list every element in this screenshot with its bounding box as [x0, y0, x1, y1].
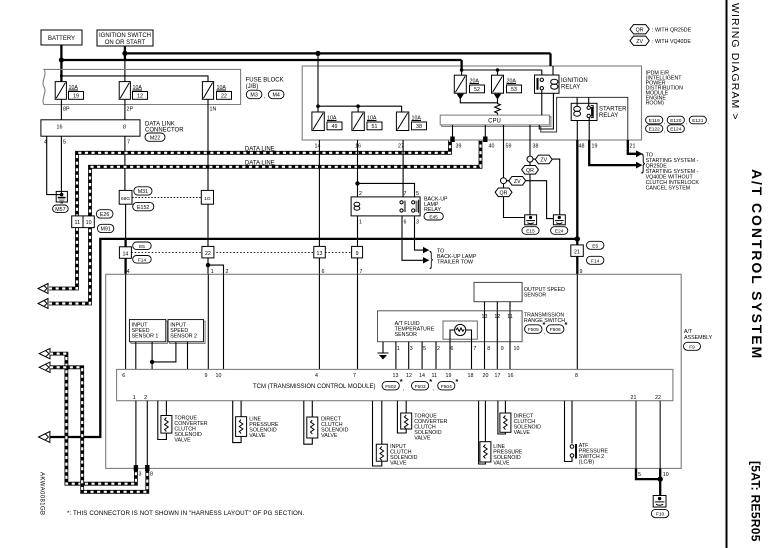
svg-text:7: 7: [404, 191, 407, 197]
svg-text:ROOM): ROOM): [646, 101, 664, 107]
fuse 53 20A: [492, 75, 522, 93]
starter relay label: [599, 107, 627, 120]
BATTERY box: [41, 30, 82, 45]
arrowhead 1: [636, 150, 643, 157]
pin8 square: [145, 465, 149, 471]
connector F505 oval: [525, 320, 546, 336]
output sensor pass-through wires to TCM: [485, 311, 511, 370]
svg-text:E26: E26: [100, 212, 109, 218]
wire pin59 down with QR/ZV split: [503, 140, 505, 178]
svg-text:RELAY: RELAY: [599, 113, 618, 119]
svg-text:9: 9: [205, 373, 208, 379]
svg-text:CPU: CPU: [488, 119, 501, 125]
back-up lamp relay label: [424, 197, 448, 214]
svg-text:1: 1: [211, 269, 214, 275]
svg-text:20: 20: [483, 373, 489, 379]
svg-text:: WITH VQ40DE: : WITH VQ40DE: [652, 39, 691, 45]
connector M91 oval: [97, 224, 113, 232]
svg-text:53: 53: [511, 87, 517, 93]
IPDM E/R box: [302, 66, 641, 140]
svg-text:,: ,: [664, 128, 665, 134]
svg-text:*: THIS CONNECTOR IS NOT SHOWN: *: THIS CONNECTOR IS NOT SHOWN IN "HARNE…: [67, 510, 305, 517]
IPDM E/R label block: [646, 71, 684, 107]
svg-text:E152: E152: [137, 205, 149, 211]
svg-text:SENSOR: SENSOR: [524, 293, 547, 299]
svg-text:3: 3: [410, 346, 413, 352]
svg-text:*: *: [455, 377, 458, 386]
connector E5 oval right: [587, 241, 604, 249]
connector E24 oval: [551, 227, 568, 235]
svg-text:SENSOR 1: SENSOR 1: [132, 334, 159, 340]
wire starter contact to pin19: [588, 118, 590, 140]
harness connector row dotted line: [131, 251, 351, 253]
solenoid 3 direct clutch loop: [304, 401, 313, 445]
IPDM pin labels: [315, 144, 636, 150]
svg-text:*: *: [565, 320, 568, 329]
DATA LINK CONNECTOR box: [41, 120, 140, 136]
svg-text:16: 16: [57, 124, 63, 130]
svg-text:TRAILER TOW: TRAILER TOW: [437, 260, 473, 266]
wire A/T pin2 to TCM pin10: [223, 274, 225, 369]
node fuse53 feed: [496, 68, 500, 72]
wire sensor2 right pin to TCM: [187, 342, 189, 370]
stub bus to fuse 51: [357, 106, 359, 112]
solenoid 6 resistor box: [480, 442, 491, 462]
node split below connector 22: [206, 263, 210, 267]
svg-text:6: 6: [451, 346, 454, 352]
solenoid 1 resistor box: [161, 416, 172, 434]
svg-text:}: }: [430, 249, 433, 270]
arrowhead trailer 2: [423, 257, 429, 263]
stub to fuse 53: [497, 70, 499, 75]
range switch wires to TCM: [396, 342, 436, 370]
wire relay pin3 to trailer tow arrow: [415, 216, 425, 250]
wire junction left to A/T left loop: [49, 239, 577, 437]
svg-text:ZV: ZV: [636, 39, 643, 45]
svg-text:10: 10: [663, 472, 669, 478]
diode arrow below fuse 52: [457, 94, 464, 100]
range switch bottom pin labels: [397, 346, 520, 352]
wire TCM pin2 to A/T pin8: [146, 401, 148, 469]
svg-text:38: 38: [416, 124, 422, 130]
svg-text:E122: E122: [649, 127, 661, 133]
wire starter contact top: [588, 97, 590, 106]
node fuse49 bus: [316, 104, 320, 108]
ZV hexagon pin38: [533, 155, 560, 215]
wire to A/T pin 1: [207, 265, 209, 274]
fuse block label: [246, 78, 284, 91]
svg-text:6: 6: [322, 269, 325, 275]
svg-text:5: 5: [423, 346, 426, 352]
connector box 9: [352, 246, 363, 258]
svg-text:5: 5: [63, 140, 66, 146]
fuse 19 10A: [55, 82, 83, 100]
wire relay pin1 down to connector 9: [357, 216, 359, 246]
solenoid 7 direct clutch loop: [498, 401, 506, 434]
svg-text:SENSOR 2: SENSOR 2: [170, 334, 197, 340]
wire sensor1 right pin to TCM: [151, 342, 153, 370]
svg-text:7: 7: [127, 140, 130, 146]
svg-text:13: 13: [393, 373, 399, 379]
solenoid 2 label: [249, 417, 279, 440]
thermistor: [450, 324, 472, 341]
fuse 38 10A: [396, 112, 426, 131]
wire CPU to pin38: [529, 125, 531, 140]
connector box 21: [571, 245, 584, 257]
ground connector E15: [525, 215, 537, 225]
svg-text:,: ,: [544, 330, 545, 336]
data line 1 (shielded wire): [49, 140, 450, 289]
svg-text:9: 9: [501, 346, 504, 352]
QR hexagon pin59: [495, 184, 525, 218]
wire 1G down through connector 22: [207, 204, 209, 246]
svg-text:10: 10: [86, 220, 92, 226]
wire sensor2 left pin join: [152, 342, 176, 362]
svg-text:QR: QR: [526, 168, 534, 174]
solenoid 5 label: [414, 414, 447, 442]
connector E120 oval: [667, 116, 687, 125]
output speed sensor label: [524, 287, 565, 299]
svg-text:,: ,: [264, 94, 265, 100]
stub to fuse 52: [461, 70, 463, 75]
svg-text:IGNITION SWITCH: IGNITION SWITCH: [99, 33, 151, 39]
wire DLC pin7 down to 68G: [124, 136, 126, 190]
wire TCM pin22 down: [659, 401, 661, 469]
stub bus to fuse 49: [317, 106, 319, 112]
node battery junction: [59, 57, 64, 62]
wire to A/T pin 2: [208, 265, 224, 274]
svg-text:39: 39: [456, 144, 462, 150]
svg-text:19: 19: [446, 373, 452, 379]
svg-text:21: 21: [574, 249, 580, 255]
connector E121 oval: [689, 116, 709, 125]
fuse 12 10A: [119, 82, 147, 100]
A/T fluid temperature sensor label: [395, 321, 435, 338]
svg-text:VALVE: VALVE: [414, 436, 431, 442]
svg-text:68G: 68G: [121, 196, 130, 202]
TCM box: [117, 369, 673, 400]
wire IPDM pin27 down to relay pin7: [402, 140, 404, 197]
svg-text:TCM (TRANSMISSION CONTROL MODU: TCM (TRANSMISSION CONTROL MODULE): [253, 384, 375, 390]
svg-text:2: 2: [226, 269, 229, 275]
connector M4 oval: [268, 90, 284, 99]
svg-text:F9: F9: [689, 344, 695, 350]
svg-text:5: 5: [638, 472, 641, 478]
svg-text:2: 2: [359, 191, 362, 197]
svg-text:4: 4: [127, 269, 130, 275]
node relay feed split: [355, 181, 359, 185]
svg-text:M31: M31: [138, 189, 148, 195]
svg-text:1G: 1G: [204, 196, 211, 202]
wire pin19 to starting system arrow: [589, 140, 638, 165]
svg-text:16: 16: [508, 373, 514, 379]
svg-text:22: 22: [221, 94, 227, 100]
svg-text:F14: F14: [138, 257, 147, 263]
sidebar rule: [726, 0, 728, 548]
svg-text:10: 10: [216, 373, 222, 379]
svg-text:(J/B): (J/B): [246, 84, 259, 90]
off-page arrow 1: [38, 284, 48, 294]
svg-text:8: 8: [487, 346, 490, 352]
wire TCM pin21 down: [635, 401, 637, 469]
off-page arrow 4: [39, 362, 50, 372]
svg-text:F503: F503: [415, 384, 426, 390]
svg-text:2P: 2P: [127, 107, 134, 113]
wire battery line down into IPDM: [460, 60, 462, 70]
fuse block (J/B) box: [43, 69, 241, 104]
arrowhead 2: [636, 162, 643, 169]
fuse 49 10A: [312, 112, 342, 131]
svg-text:40: 40: [489, 144, 495, 150]
legend ZV hexagon: [630, 36, 691, 45]
svg-text:18: 18: [468, 373, 474, 379]
pin40 square: [483, 137, 487, 143]
ignition feed wire (horizontal): [125, 52, 551, 54]
output speed sensor box: [474, 282, 522, 301]
svg-text:VALVE: VALVE: [321, 433, 338, 439]
node ignition junction: [122, 51, 127, 56]
svg-text:E120: E120: [670, 118, 682, 124]
resistor to CPU: [495, 99, 501, 115]
connector E26 oval: [96, 210, 113, 218]
svg-text:3: 3: [139, 472, 142, 478]
connector M22 oval: [145, 133, 165, 141]
wire ignition line down to fuse bus: [317, 53, 319, 106]
svg-text:11: 11: [75, 220, 81, 226]
ATF pressure switch contacts: [570, 444, 576, 459]
svg-text:1: 1: [359, 220, 362, 226]
pin3 square: [134, 465, 138, 471]
solenoid 6 line pressure loop (lower): [479, 401, 486, 464]
pin39 square: [450, 137, 454, 143]
wire CPU to pin21 path around starter relay: [541, 97, 628, 140]
connector E124 oval: [667, 125, 684, 133]
svg-text:*: *: [400, 377, 403, 386]
svg-text:5: 5: [416, 191, 419, 197]
wire starter coil to pin48: [576, 121, 578, 141]
A/T assembly outer box: [106, 274, 682, 468]
svg-text:VALVE: VALVE: [514, 430, 531, 436]
node fuse51 bus: [356, 104, 360, 108]
svg-text:1: 1: [397, 346, 400, 352]
svg-text:21: 21: [630, 144, 636, 150]
svg-text:M3: M3: [250, 93, 257, 99]
svg-text:F504: F504: [441, 384, 452, 390]
svg-text:E5: E5: [139, 244, 145, 250]
diode arrow below fuse 53: [494, 94, 501, 100]
svg-text:,: ,: [707, 120, 708, 126]
svg-text:4: 4: [315, 373, 318, 379]
connector F10 oval: [651, 509, 668, 517]
svg-text:*: *: [543, 320, 546, 329]
svg-text:9: 9: [356, 251, 359, 257]
branch to relay contact pin5: [358, 183, 415, 196]
wire 68G-wire through connector to A/T box pin 4: [124, 238, 126, 274]
wire sensor1 left pin to TCM: [135, 342, 137, 370]
svg-text:E119: E119: [649, 118, 660, 124]
ignition relay box: [535, 75, 560, 93]
svg-text:M22: M22: [150, 135, 160, 141]
svg-text:22: 22: [655, 395, 661, 401]
solenoid 1 torque converter clutch loop: [158, 401, 167, 440]
svg-text:AKWA0081GB: AKWA0081GB: [39, 472, 45, 515]
shielded wire TCM pin2 to arrow 4: [50, 367, 147, 492]
svg-text:F502: F502: [385, 384, 396, 390]
svg-text:*: *: [429, 377, 432, 386]
ground connector M57: [56, 191, 67, 203]
wire fuse12 to DLC pin8: [124, 99, 126, 120]
svg-text:FUSE BLOCK: FUSE BLOCK: [246, 78, 284, 84]
connector M57 oval: [53, 205, 69, 213]
wire battery to fuse 19: [60, 45, 62, 82]
off-page arrow 2: [38, 299, 48, 309]
svg-text:14: 14: [419, 373, 425, 379]
wire TCM pin1 to A/T pin3: [135, 401, 137, 469]
input speed sensor 1 box: [129, 320, 167, 344]
wire CPU to pin39: [452, 125, 454, 140]
fuse 52 20A: [454, 75, 484, 93]
svg-text:ASSEMBLY: ASSEMBLY: [684, 335, 713, 341]
connector 1G box: [201, 190, 213, 204]
solenoid 7 resistor box: [500, 413, 511, 432]
range switch ground wire: [382, 342, 384, 353]
range switch ground symbol: [378, 353, 389, 360]
arrowhead trailer 1: [423, 247, 429, 253]
connector F9 oval: [684, 342, 701, 350]
svg-text:1: 1: [133, 395, 136, 401]
shielded wire TCM pin1 to arrow 3: [50, 354, 136, 484]
solenoid 4 resistor box: [376, 444, 387, 461]
fuse 51 10A: [352, 112, 382, 131]
ATF pressure switch 2 wires: [565, 401, 573, 462]
temp sensor wires to TCM: [450, 342, 472, 370]
connector F502 oval: [382, 377, 404, 392]
svg-text:RELAY: RELAY: [561, 85, 580, 91]
ground connector E24: [553, 215, 565, 225]
data line 2 (shielded wire): [49, 140, 481, 304]
svg-text:48: 48: [579, 144, 585, 150]
wire DLC pin4 to M57: [47, 136, 62, 194]
wire A/T pin9 to TCM pin8: [576, 274, 578, 369]
svg-text:QR: QR: [636, 28, 644, 34]
solenoid 1 label: [174, 416, 207, 444]
pass-through pin labels 13 12 11: [482, 314, 513, 320]
node battery feed inside IPDM: [460, 68, 464, 72]
ignition relay label: [561, 78, 588, 91]
connector F504 oval: [438, 377, 459, 390]
svg-text:51: 51: [372, 124, 378, 130]
starter relay box: [571, 103, 597, 120]
solenoid 6 label: [493, 444, 523, 467]
svg-text:F14: F14: [591, 258, 600, 264]
A/T ASSEMBLY label: [684, 329, 713, 341]
node ignition line to fuse bus: [315, 51, 320, 56]
solenoid 5 torque converter clutch loop: [397, 401, 406, 433]
connector M3 oval: [246, 90, 265, 99]
svg-text:F10: F10: [656, 512, 665, 518]
A/T fluid temp sensor inner box: [443, 321, 477, 339]
option circle on pin38 wire: [527, 156, 533, 162]
connector M31 oval: [134, 187, 152, 195]
feed line to fuses 52,53 and ignition relay contact: [462, 70, 542, 78]
CPU box: [440, 115, 551, 126]
svg-text:7: 7: [360, 269, 363, 275]
svg-text:E5: E5: [592, 243, 598, 249]
svg-text:22: 22: [205, 251, 211, 257]
svg-text:E124: E124: [670, 127, 682, 133]
TCM top pin labels: [122, 373, 578, 379]
solenoid 7 label: [514, 414, 542, 437]
svg-text:,: ,: [432, 386, 433, 392]
wire IPDM pin48 down (thick): [576, 140, 578, 239]
svg-text:2: 2: [437, 346, 440, 352]
wire pin38 down with QR/ZV split: [529, 140, 531, 156]
svg-text:F506: F506: [550, 327, 561, 333]
svg-text:E45: E45: [429, 214, 438, 220]
svg-text:ZV: ZV: [540, 158, 547, 164]
wire A/T pin1 to TCM pin9: [207, 274, 209, 369]
svg-text:A/T CONTROL SYSTEM: A/T CONTROL SYSTEM: [749, 169, 765, 360]
pass-through connector 11|10: [72, 216, 95, 228]
node ground join: [658, 476, 663, 481]
svg-text:VALVE: VALVE: [249, 433, 266, 439]
svg-text:2: 2: [144, 395, 147, 401]
wire ignition contact bottom to CPU top: [541, 90, 543, 115]
wire fuse22 down to 1G: [207, 99, 209, 190]
svg-text:M57: M57: [55, 207, 65, 213]
svg-text:CANCEL SYSTEM: CANCEL SYSTEM: [646, 186, 691, 192]
svg-text:6: 6: [404, 220, 407, 226]
wire IPDM pin16 down to relay coil: [357, 140, 359, 197]
output sensor wires to range switch box: [485, 302, 511, 311]
svg-text:F505: F505: [528, 327, 539, 333]
TO BACK-UP LAMP TRAILER TOW text: [437, 249, 477, 266]
svg-text:ZV: ZV: [514, 179, 521, 185]
svg-text:,: ,: [403, 386, 404, 392]
svg-text:STARTER: STARTER: [599, 107, 627, 113]
battery feed wire (horizontal): [61, 59, 461, 61]
svg-text:(LC/B): (LC/B): [579, 460, 595, 466]
svg-text:,: ,: [664, 120, 665, 126]
svg-text:11: 11: [432, 373, 438, 379]
svg-text:E15: E15: [526, 229, 535, 235]
fuse bus inside IPDM: [318, 106, 402, 112]
svg-text:8: 8: [123, 124, 126, 130]
wire junction down through connector 21: [576, 239, 578, 274]
svg-text:17: 17: [495, 373, 501, 379]
TO STARTING SYSTEM text: [646, 153, 700, 192]
wire fuse52 to resistor node: [460, 99, 497, 103]
svg-text:VALVE: VALVE: [493, 461, 510, 467]
svg-text:WIRING DIAGRAM >: WIRING DIAGRAM >: [729, 3, 741, 121]
svg-text:49: 49: [332, 124, 338, 130]
connector E152 oval: [133, 202, 154, 210]
svg-text:10: 10: [514, 346, 520, 352]
wire A/T pin6 to TCM pin4: [318, 274, 320, 369]
IGNITION SWITCH ON OR START box: [97, 30, 153, 46]
connector F14 oval right: [587, 256, 604, 264]
svg-text:E24: E24: [555, 229, 564, 235]
ground connector F10: [653, 496, 666, 508]
A/T box top pin labels: [127, 269, 583, 275]
svg-text:8P: 8P: [63, 107, 70, 113]
node battery to fuse22 tap: [60, 74, 63, 77]
option circle on pin59 wire: [501, 178, 507, 184]
svg-text:1N: 1N: [210, 107, 217, 113]
connector E122 oval: [646, 125, 666, 134]
svg-text:52: 52: [474, 87, 480, 93]
wire relay pin6 to trailer tow arrow: [402, 216, 425, 260]
